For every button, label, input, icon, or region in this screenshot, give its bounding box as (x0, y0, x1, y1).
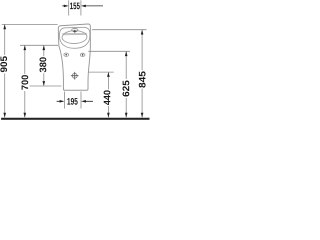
dimension 625 arrows (125, 51, 128, 117)
extension line 845 top (92, 29, 147, 31)
dimension 155 arrow tails (62, 5, 103, 7)
extension line 905 top (2, 23, 58, 25)
urinal body outline (58, 24, 90, 90)
extension line 440 top (89, 71, 114, 73)
bowl water line (62, 33, 86, 36)
dimension 195 arrowheads (60, 100, 86, 103)
dimension 905 arrows (3, 24, 6, 117)
extension line 700/380 top (20, 44, 58, 46)
dimension 380 label (40, 57, 47, 72)
dimension 905 label (0, 56, 7, 72)
dimension 625 line (125, 52, 127, 118)
dimension 195 label (67, 98, 77, 105)
mounting hole left (64, 53, 69, 56)
dimension 440 label (104, 90, 111, 105)
extension line 625 top (88, 50, 130, 52)
dimension 700 arrows (24, 45, 27, 117)
dimension 845 arrows (141, 30, 144, 118)
mounting hole right (80, 53, 85, 56)
dimension 440 arrows (107, 72, 110, 117)
flush inlet (72, 28, 78, 31)
dimension 380 arrows (43, 45, 46, 86)
dimension 625 label (123, 81, 130, 97)
rim outer edge (60, 27, 90, 48)
bowl inner edge (62, 30, 87, 44)
floor line (1, 118, 149, 120)
dimension 700 line (24, 46, 26, 118)
extension lines 155 (69, 0, 81, 15)
dimension 380 line (43, 46, 45, 86)
bowl rim lip line (62, 32, 87, 35)
dimension 155 label (70, 3, 80, 10)
dimension 155 arrowheads (64, 5, 86, 8)
extension lines 195 (65, 92, 82, 109)
extension line 380 bottom (30, 85, 62, 87)
dimension 905 line (4, 25, 6, 118)
dimension 845 label (139, 71, 146, 87)
dimension 700 label (21, 75, 28, 90)
outlet crosshair (72, 73, 77, 78)
dimension 440 line (107, 72, 109, 117)
dimension 195 arrow tails (57, 100, 93, 102)
dimension 845 line (141, 30, 143, 118)
